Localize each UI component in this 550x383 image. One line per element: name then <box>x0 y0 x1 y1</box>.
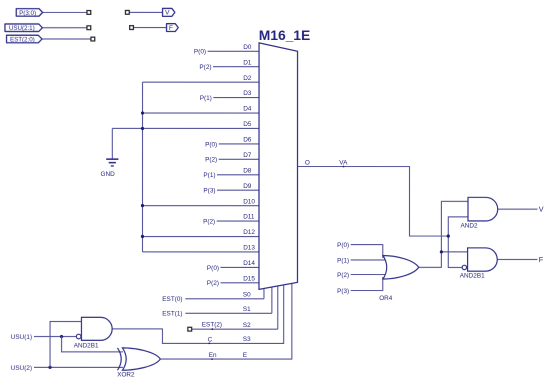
svg-text:O: O <box>305 160 310 167</box>
svg-text:P(3): P(3) <box>203 188 215 195</box>
svg-text:S1: S1 <box>243 306 251 313</box>
svg-text:OR4: OR4 <box>379 295 393 302</box>
svg-text:D7: D7 <box>243 152 252 159</box>
svg-text:P(2): P(2) <box>203 218 215 225</box>
svg-text:S3: S3 <box>243 336 251 343</box>
svg-text:D13: D13 <box>243 245 255 252</box>
svg-text:P(1): P(1) <box>203 172 215 179</box>
svg-text:D3: D3 <box>243 90 252 97</box>
svg-text:V: V <box>165 10 170 17</box>
svg-text:EST(2): EST(2) <box>202 321 222 328</box>
svg-text:D14: D14 <box>243 260 255 267</box>
svg-text:P(0): P(0) <box>337 242 349 249</box>
svg-text:P(0): P(0) <box>207 265 219 272</box>
svg-text:USU(2): USU(2) <box>11 365 32 372</box>
svg-text:S2: S2 <box>243 322 251 329</box>
svg-text:En: En <box>209 352 217 359</box>
svg-text:D1: D1 <box>243 59 252 66</box>
svg-text:P(2): P(2) <box>199 64 211 71</box>
svg-text:P(2): P(2) <box>205 157 217 164</box>
svg-text:D0: D0 <box>243 44 252 51</box>
svg-text:D11: D11 <box>243 214 255 221</box>
svg-text:F: F <box>539 255 544 264</box>
svg-text:AND2: AND2 <box>460 223 477 230</box>
svg-text:AND2B1: AND2B1 <box>460 273 485 280</box>
svg-text:D8: D8 <box>243 167 252 174</box>
svg-text:S0: S0 <box>243 291 251 298</box>
svg-text:USU(1): USU(1) <box>11 334 32 341</box>
svg-text:D6: D6 <box>243 136 252 143</box>
svg-text:P(3:0): P(3:0) <box>19 10 36 17</box>
svg-text:D2: D2 <box>243 75 252 82</box>
svg-text:P(1): P(1) <box>200 95 212 102</box>
svg-text:D10: D10 <box>243 198 255 205</box>
svg-text:V: V <box>539 205 544 214</box>
svg-text:D9: D9 <box>243 183 252 190</box>
svg-text:P(3): P(3) <box>337 288 349 295</box>
svg-text:F: F <box>169 25 173 32</box>
svg-text:USU(2:1): USU(2:1) <box>9 25 35 32</box>
svg-text:EST(2:0): EST(2:0) <box>10 36 35 43</box>
svg-text:P(2): P(2) <box>207 280 219 287</box>
svg-text:EST(0): EST(0) <box>162 296 182 303</box>
svg-text:P(0): P(0) <box>205 141 217 148</box>
svg-text:E: E <box>243 352 247 359</box>
svg-text:P(0): P(0) <box>194 49 206 56</box>
svg-text:C: C <box>208 336 213 343</box>
svg-text:P(2): P(2) <box>337 272 349 279</box>
svg-text:EST(1): EST(1) <box>162 311 182 318</box>
svg-text:P(1): P(1) <box>337 257 349 264</box>
svg-text:GND: GND <box>101 171 116 178</box>
svg-text:AND2B1: AND2B1 <box>74 343 99 350</box>
svg-text:M16_1E: M16_1E <box>259 28 310 43</box>
svg-text:D12: D12 <box>243 229 255 236</box>
svg-text:D15: D15 <box>243 275 255 282</box>
svg-text:D4: D4 <box>243 106 252 113</box>
svg-text:XOR2: XOR2 <box>117 372 135 379</box>
svg-text:D5: D5 <box>243 121 252 128</box>
